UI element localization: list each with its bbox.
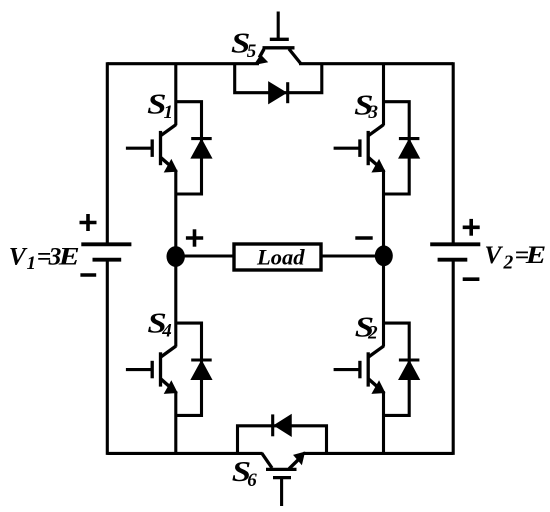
transistor S1 gate lead (126, 147, 152, 150)
diode D6 triangle (275, 415, 291, 436)
transistor S1 collector diagonal (161, 125, 176, 136)
load box (234, 244, 321, 270)
svg-text:V: V (9, 241, 28, 270)
wire node A to load (176, 254, 234, 257)
transistor S1 emitter arrow (165, 161, 176, 172)
minus sign battery V2 (463, 277, 480, 281)
transistor S6 emitter diagonal (289, 460, 299, 469)
node A (167, 246, 185, 267)
transistor S1 emitter diagonal (161, 157, 172, 167)
wire diode loop S1 (176, 102, 202, 194)
transistor S6 emitter arrow (294, 453, 304, 464)
wire S2 branch to bottom rail (382, 391, 385, 453)
wire top rail left segment (107, 62, 259, 65)
transistor S2 with diode cell (334, 323, 420, 415)
battery V2 short plate (438, 258, 468, 262)
wire S1 branch top connector (174, 64, 177, 125)
battery V2 long plate (430, 242, 480, 246)
svg-text:Load: Load (256, 245, 305, 270)
transistor S5 collector diagonal (289, 49, 301, 64)
transistor S6 gate lead (280, 478, 283, 506)
wire bottom rail right segment (303, 452, 453, 455)
diode D6 anode bar (271, 414, 274, 436)
diode D5 triangle (269, 82, 286, 103)
transistor S1 gate bar (151, 139, 154, 157)
transistor S6 collector diagonal (262, 453, 272, 468)
diode D1 triangle (192, 140, 212, 158)
wire S3 branch top connector (382, 64, 385, 125)
wire node A to S4 branch (174, 256, 177, 347)
transistor S3 with diode cell (334, 102, 420, 194)
wire S3 branch to node B (382, 170, 385, 256)
svg-text:5: 5 (247, 41, 257, 62)
svg-text:E: E (58, 243, 80, 271)
transistor S6 (bottom) (238, 414, 327, 506)
label V1=3E (9, 241, 80, 274)
node B (375, 245, 393, 266)
battery V1 long plate (81, 242, 131, 246)
svg-text:E: E (525, 241, 546, 269)
wire S1 branch to node A (174, 170, 177, 256)
label V2=E (484, 240, 546, 274)
diode D5 cathode bar (286, 82, 289, 103)
plus sign battery V1 (80, 214, 97, 231)
transistor S1 collector-emitter bar (159, 131, 162, 165)
svg-text:2: 2 (367, 323, 378, 344)
svg-text:3: 3 (368, 102, 379, 123)
transistor S5 emitter arrow (255, 56, 267, 65)
plus sign battery V2 (463, 219, 480, 236)
battery V1 short plate (93, 258, 122, 262)
wire bottom rail left segment (107, 452, 262, 455)
transistor S6 collector-emitter bar (266, 468, 297, 471)
svg-text:1: 1 (164, 102, 174, 123)
svg-text:1: 1 (27, 253, 37, 274)
transistor S5 gate lead (277, 12, 280, 40)
wire top rail right segment (299, 62, 453, 65)
transistor S5 (top) (235, 12, 322, 104)
svg-text:4: 4 (161, 320, 172, 341)
minus sign battery V1 (80, 273, 96, 277)
transistor S5 collector-emitter bar (263, 46, 295, 49)
svg-text:2: 2 (503, 253, 514, 274)
wire node B to S2 branch (382, 256, 385, 347)
transistor S4 with diode cell (126, 323, 212, 415)
transistor S5 gate bar (270, 38, 289, 41)
transistor S6 gate bar (273, 476, 291, 479)
diode D1 cathode bar (191, 137, 212, 140)
transistor S1 with diode cell (126, 102, 212, 194)
plus sign load left (186, 229, 203, 246)
wire S4 branch to bottom rail (174, 391, 177, 453)
wire S6 diode loop (238, 426, 327, 454)
wire right rail lower (452, 261, 455, 455)
wire right rail upper (452, 62, 455, 243)
load circuit (176, 244, 384, 270)
wire left rail upper (106, 62, 109, 243)
minus sign load right (355, 236, 372, 240)
wire load to node B (321, 254, 383, 257)
svg-text:V: V (484, 240, 503, 269)
wire S5 diode loop (235, 64, 322, 93)
svg-text:6: 6 (247, 470, 257, 491)
transistor S5 emitter diagonal (259, 49, 264, 58)
wire left rail lower (106, 261, 109, 455)
